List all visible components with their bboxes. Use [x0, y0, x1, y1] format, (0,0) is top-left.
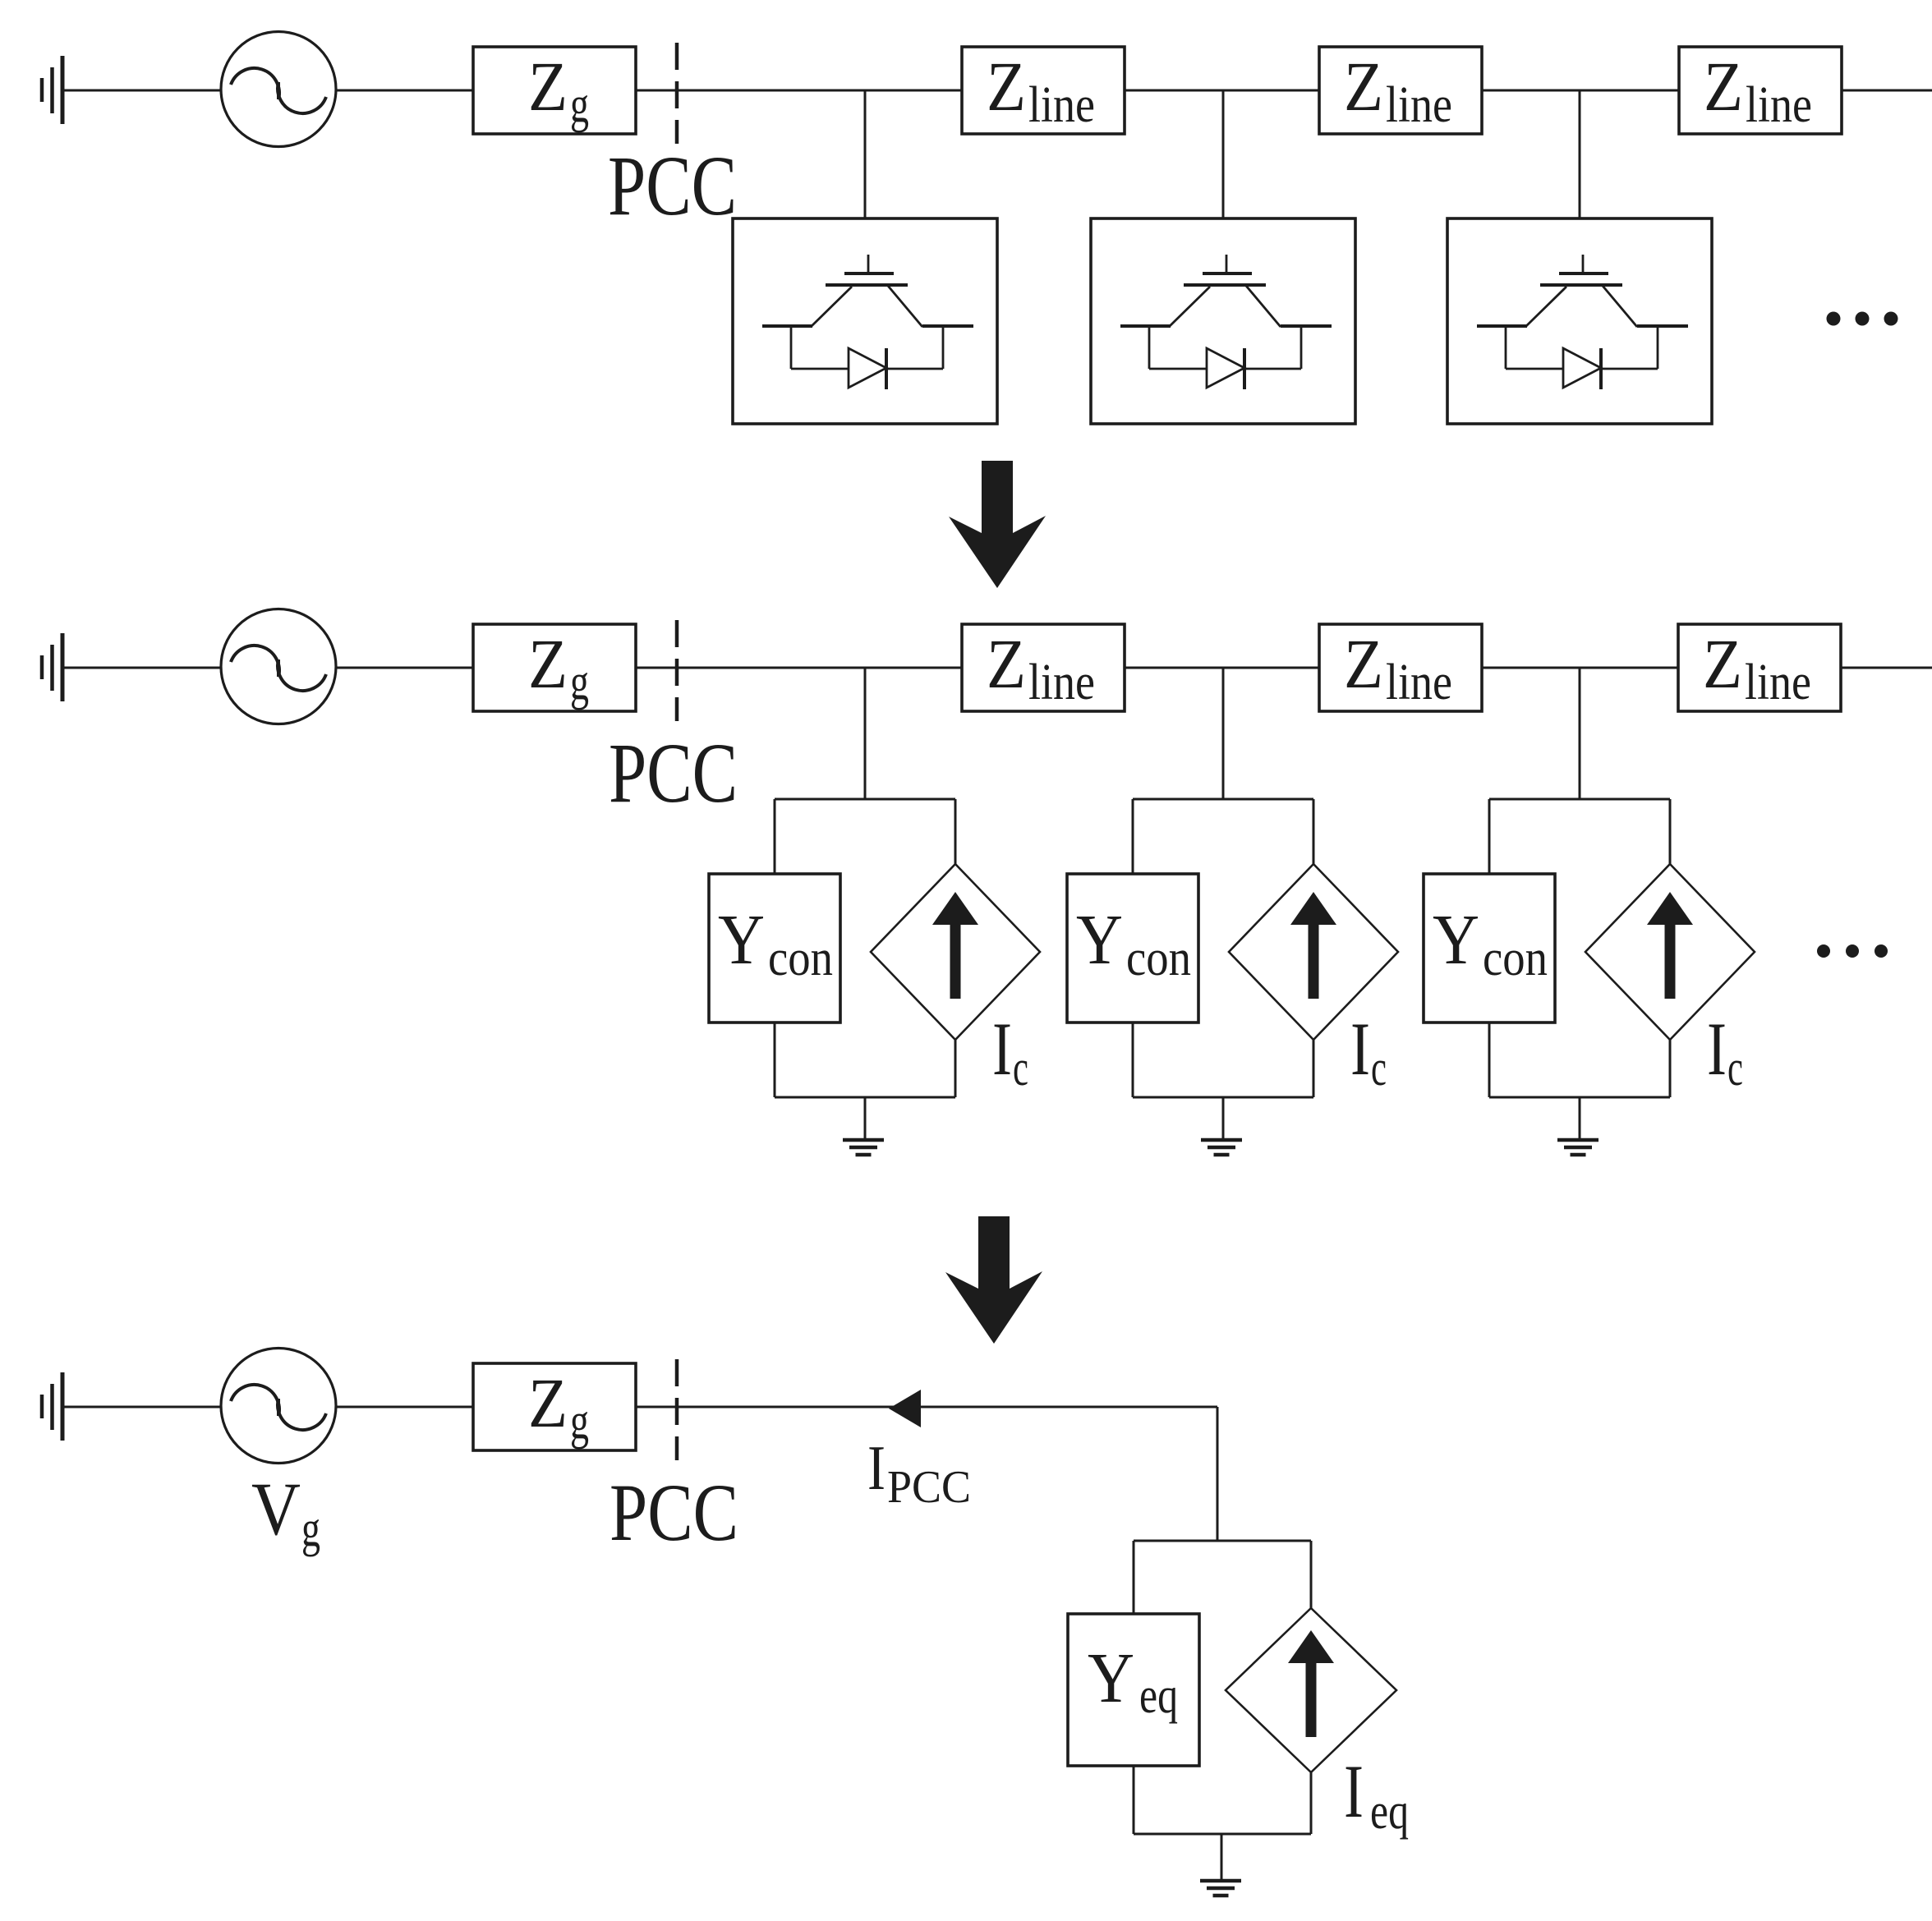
AC source section 2 [221, 609, 336, 724]
wire diode branch section 1 x=1489 [1149, 326, 1301, 369]
PCC dashed cut line section 2 [675, 620, 679, 721]
label I_PCC [867, 1432, 971, 1513]
admittance Y_con box at x=1813 section 2 tap=1923 [1424, 874, 1555, 1023]
wire to ground section 3 [1134, 1766, 1311, 1881]
wire to ground section 2 tap=1923 [1489, 1023, 1670, 1140]
svg-text:eq: eq [1139, 1668, 1178, 1724]
wire corner to equivalent [1217, 1407, 1219, 1541]
wire rail section 2 [62, 667, 1932, 669]
svg-text:eq: eq [1370, 1784, 1409, 1840]
svg-text:g: g [301, 1501, 320, 1557]
wire rail section 3 [62, 1406, 1217, 1409]
svg-text:PCC: PCC [609, 726, 738, 820]
dependent current source I_c diamond at x=1163 section 2 tap=1053 [871, 864, 1040, 1040]
converter box outline section 1 x=1489 [1091, 218, 1355, 424]
IGBT transistor section 1 x=1053 [762, 255, 973, 327]
svg-text:I: I [992, 1007, 1012, 1091]
dependent current source I_eq diamond [1226, 1608, 1396, 1772]
svg-text:line: line [1386, 77, 1452, 133]
label I_c section 2 tap=1489 [1350, 1007, 1387, 1096]
AC source section 3 [221, 1349, 336, 1464]
svg-text:c: c [1013, 1041, 1028, 1096]
wire tap at x=1923 section 2 tap=1923 [1579, 668, 1581, 799]
wire branch split section 3 [1134, 1541, 1311, 1614]
label Y_con section 2 tap=1053 [718, 899, 833, 986]
svg-text:I: I [1707, 1007, 1727, 1091]
label Y_eq [1088, 1638, 1178, 1724]
dependent current source I_c diamond at x=1599 section 2 tap=1489 [1229, 864, 1398, 1040]
svg-text:Z: Z [528, 47, 568, 126]
ground left section 3 [42, 1372, 62, 1441]
svg-text:PCC: PCC [609, 1467, 738, 1558]
big arrow 2 [945, 1216, 1042, 1344]
svg-text:c: c [1371, 1041, 1387, 1096]
PCC dashed cut line section 3 [675, 1359, 679, 1460]
label V_g [251, 1467, 320, 1557]
svg-text:PCC: PCC [887, 1462, 971, 1513]
big arrow 1 [949, 461, 1046, 588]
svg-text:line: line [1745, 655, 1811, 710]
wire diode branch section 1 x=1923 [1506, 326, 1658, 369]
label PCC section 2 [609, 726, 738, 820]
wire tap at x=1489 section 2 tap=1489 [1222, 668, 1225, 799]
ellipsis dots section 2 [1817, 944, 1888, 958]
impedance Z_g box section 1 [473, 47, 636, 134]
wire tap to converter 1923 section 1 x=1923 [1579, 90, 1581, 218]
svg-text:I: I [1350, 1007, 1370, 1091]
IGBT transistor section 1 x=1923 [1477, 255, 1688, 327]
svg-text:con: con [768, 931, 833, 986]
wire to ground section 2 tap=1053 [775, 1023, 955, 1140]
converter box outline section 1 x=1923 [1447, 218, 1712, 424]
svg-text:g: g [570, 655, 589, 710]
impedance Z_line box 3 section 1 [1679, 47, 1842, 134]
wire tap to converter 1489 section 1 x=1489 [1222, 90, 1225, 218]
label Y_con section 2 tap=1489 [1076, 899, 1191, 986]
svg-text:Y: Y [1076, 899, 1123, 979]
impedance Z_line box 1 section 1 [962, 47, 1125, 134]
PCC dashed cut line section 1 [675, 43, 679, 144]
svg-text:con: con [1126, 931, 1191, 986]
svg-text:line: line [1028, 655, 1095, 710]
svg-text:Y: Y [718, 899, 765, 979]
ellipsis dots section 1 [1827, 312, 1898, 326]
svg-text:I: I [1344, 1749, 1364, 1833]
current arrowhead I_PCC [889, 1390, 921, 1427]
wire tap at x=1053 section 2 tap=1053 [864, 668, 867, 799]
svg-text:Y: Y [1088, 1638, 1134, 1717]
ground section 2 tap=1923 [1557, 1140, 1598, 1155]
impedance Z_line box 2 section 1 [1319, 47, 1482, 134]
admittance Y_con box at x=943 section 2 tap=1053 [709, 874, 840, 1023]
svg-text:g: g [570, 77, 589, 133]
label PCC section 1 [608, 139, 737, 233]
svg-text:PCC: PCC [608, 139, 737, 233]
ground section 2 tap=1053 [843, 1140, 884, 1155]
wire tap to converter 1053 section 1 x=1053 [864, 90, 867, 218]
svg-text:I: I [867, 1432, 885, 1503]
svg-text:Z: Z [987, 624, 1026, 703]
AC source section 1 [221, 32, 336, 147]
wire branch split section 2 tap=1923 [1489, 799, 1670, 874]
wire branch split section 2 tap=1053 [775, 799, 955, 874]
svg-text:Z: Z [528, 1363, 568, 1442]
impedance Z_line box 3 section 2 [1678, 624, 1841, 711]
svg-text:line: line [1386, 655, 1452, 710]
wire diode branch section 1 x=1053 [791, 326, 943, 369]
antiparallel diode section 1 x=1923 [1563, 348, 1601, 389]
label I_c section 2 tap=1053 [992, 1007, 1028, 1096]
svg-text:con: con [1483, 931, 1548, 986]
antiparallel diode section 1 x=1053 [849, 348, 886, 389]
wire rail section 1 [62, 90, 1932, 92]
svg-text:Z: Z [1704, 47, 1743, 126]
svg-text:Z: Z [1703, 624, 1742, 703]
svg-text:V: V [251, 1467, 301, 1551]
svg-text:g: g [570, 1394, 589, 1450]
antiparallel diode section 1 x=1489 [1207, 348, 1244, 389]
converter box outline section 1 x=1053 [733, 218, 997, 424]
svg-text:c: c [1727, 1041, 1743, 1096]
ground section 2 tap=1489 [1201, 1140, 1242, 1155]
admittance Y_eq box [1068, 1614, 1199, 1766]
admittance Y_con box at x=1379 section 2 tap=1489 [1067, 874, 1198, 1023]
svg-text:Y: Y [1433, 899, 1479, 979]
label Y_con section 2 tap=1923 [1433, 899, 1548, 986]
label I_eq [1344, 1749, 1409, 1840]
svg-text:Z: Z [528, 624, 568, 703]
wire branch split section 2 tap=1489 [1133, 799, 1313, 874]
svg-text:Z: Z [987, 47, 1026, 126]
IGBT transistor section 1 x=1489 [1120, 255, 1332, 327]
svg-text:Z: Z [1344, 47, 1383, 126]
dependent current source I_c diamond at x=2033 section 2 tap=1923 [1585, 864, 1755, 1040]
label I_c section 2 tap=1923 [1707, 1007, 1743, 1096]
label PCC section 3 [609, 1467, 738, 1558]
impedance Z_g box section 2 [473, 624, 636, 711]
svg-text:line: line [1746, 77, 1812, 133]
ground left section 2 [42, 633, 62, 701]
impedance Z_line box 1 section 2 [962, 624, 1125, 711]
impedance Z_line box 2 section 2 [1319, 624, 1482, 711]
svg-text:Z: Z [1344, 624, 1383, 703]
impedance Z_g box section 3 [473, 1363, 636, 1450]
ground section 3 [1200, 1881, 1241, 1896]
svg-text:line: line [1028, 77, 1095, 133]
ground left section 1 [42, 56, 62, 124]
wire to ground section 2 tap=1489 [1133, 1023, 1313, 1140]
